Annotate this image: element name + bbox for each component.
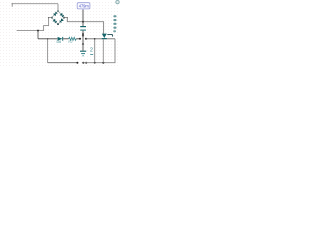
- wire: long left horizontal: [17, 30, 38, 32]
- node: junction at rail: [94, 38, 96, 40]
- bridge rectifier diamond edges: [52, 11, 65, 24]
- wire: probe vertical down to capacitor: [82, 10, 84, 26]
- svg-text:R2: R2: [68, 40, 72, 44]
- ground bar 3: [82, 55, 84, 57]
- wire: bottom rail left part: [38, 38, 57, 40]
- wire: between diode and resistor: [63, 38, 68, 40]
- label column right: [113, 15, 116, 32]
- ground bar 2: [81, 53, 85, 55]
- capacitor C1 bottom plate: [80, 29, 86, 31]
- diode D2 top-right edge: [60, 13, 64, 17]
- diode D3 bottom-left edge: [53, 19, 57, 23]
- node: junction lower: [102, 62, 104, 64]
- label ground 2 underline: [90, 54, 93, 56]
- diode D7 pointing down (right branch) triangle: [102, 34, 107, 38]
- node: lower rail segment dot: [82, 62, 84, 64]
- wire: bottom lower rail: [48, 62, 78, 64]
- wire: left vertex step down to left rail: [38, 18, 52, 31]
- node: wire end at top-left corner: [12, 3, 13, 4]
- wire: vertical from junction to bottom rail: [37, 31, 39, 39]
- wire: resistor to end dot: [76, 38, 80, 40]
- wire: capacitor down to ground: [82, 31, 84, 51]
- node: segment dot: [82, 43, 84, 45]
- label mark beside diode: [107, 34, 112, 36]
- diode D1 top-left edge: [53, 12, 57, 16]
- node: bridge bottom vertex: [57, 23, 59, 25]
- ground bar 1: [80, 50, 86, 52]
- wire: branch down from rail: [47, 39, 49, 63]
- node: open end dot right of gap: [85, 38, 87, 40]
- probe stem: [82, 9, 84, 10]
- node: junction: [94, 62, 96, 64]
- node: lower rail end dot: [76, 62, 78, 64]
- wire: lower rail right: [83, 39, 115, 63]
- node: end dot: [85, 62, 87, 64]
- wire: top horizontal rail: [12, 3, 58, 5]
- capacitor C1 top plate: [80, 26, 86, 28]
- node: open end dot: [79, 38, 81, 40]
- resistor R2 zigzag: [69, 37, 77, 40]
- wire: right vertex stub and output rail: [64, 18, 103, 34]
- node: bridge right vertex: [63, 17, 65, 19]
- wire: top-left stub down: [11, 4, 13, 7]
- wire: vertical mid branch: [94, 39, 96, 63]
- node: right stub corner dot: [67, 17, 68, 18]
- node: junction dot: [37, 30, 39, 32]
- diode D7 cathode bar: [102, 38, 107, 40]
- node: step wire corner dot: [48, 17, 49, 18]
- wire: bottom rail right part: [86, 38, 115, 40]
- node: thick segment joint on capacitor lead: [82, 34, 84, 36]
- wire: diode lead down to lower rail: [102, 39, 104, 63]
- diode D6 on bottom rail: [58, 37, 63, 41]
- node: junction with probe/cap line: [82, 21, 84, 23]
- svg-text:D6: D6: [57, 40, 62, 44]
- node: bridge left vertex: [51, 17, 53, 19]
- node: tee junction on bottom rail: [47, 38, 48, 39]
- svg-text:2: 2: [90, 48, 93, 54]
- wire: top right vertical into bridge top vertex: [57, 4, 59, 11]
- svg-text:479m: 479m: [79, 4, 90, 9]
- diode D4 bottom-right edge: [60, 18, 64, 22]
- probe box: [77, 3, 90, 9]
- node: bridge top vertex: [57, 10, 58, 11]
- ui circle icon top right: [116, 0, 119, 3]
